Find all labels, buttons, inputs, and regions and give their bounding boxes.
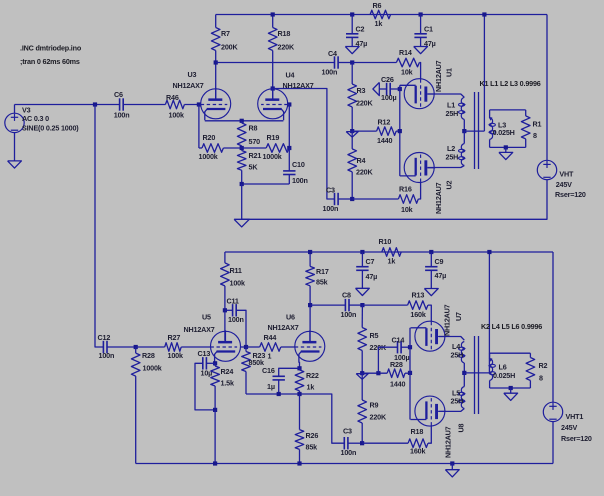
svg-text:47µ: 47µ [435,271,447,280]
svg-text:K2 L4 L5 L6 0.9996: K2 L4 L5 L6 0.9996 [481,322,542,331]
label R18 [410,427,425,456]
svg-text:C14: C14 [392,336,405,345]
svg-text:R27: R27 [168,333,181,342]
svg-text:R7: R7 [221,29,230,38]
svg-text:25H: 25H [451,351,464,360]
svg-text:C1: C1 [424,25,433,34]
svg-text:245V: 245V [561,423,577,432]
svg-text:R19: R19 [267,133,280,142]
label R13 [410,290,425,319]
svg-text:245V: 245V [556,180,572,189]
node R22 bottom [297,392,301,396]
wire C4-to-R14 [352,62,396,64]
ground (below C1) [414,47,428,54]
label C1 [424,25,436,49]
label U2 [434,180,454,214]
svg-text:R20: R20 [203,133,216,142]
wire input drop column [95,105,103,348]
svg-text:R24: R24 [221,367,234,376]
wire plate-to-C4 row [216,62,335,64]
node U6/C11/R44/R23 junction [244,345,248,349]
label R25 [142,351,162,373]
triode U6 [211,330,241,363]
label R16 [399,185,413,215]
svg-text:U7: U7 [454,312,463,321]
node U6 cathode junction [213,361,217,365]
svg-text:25H: 25H [446,153,459,162]
node U8 plate junction [308,303,312,307]
label VHT1 [561,412,592,443]
label R2 [539,361,548,383]
svg-text:AC 0.3 0: AC 0.3 0 [22,114,49,123]
svg-text:C12: C12 [98,333,111,342]
svg-text:100µ: 100µ [381,93,396,102]
svg-text:SINE(0 0.25 1000): SINE(0 0.25 1000) [22,123,79,132]
ground (secondary 1) [499,147,513,159]
resistor R23 [242,347,251,394]
svg-text:R18: R18 [411,427,424,436]
label U8 (output) [444,423,466,458]
wire top supply rail [216,14,547,16]
svg-text:R21: R21 [249,151,262,160]
transformer core 2 [475,336,479,414]
svg-text:160k: 160k [410,447,425,456]
svg-text:R6: R6 [373,1,382,10]
node R19/C10 junction [287,146,291,150]
resistor R12 [377,127,400,136]
ground (left, at C26) [373,82,379,95]
svg-text:10µ: 10µ [201,369,213,378]
label R4 [356,156,373,177]
svg-text:1µ: 1µ [267,382,275,391]
node R26 rail junction [297,461,301,465]
wire center tap to B+ [464,15,484,132]
ground (bottom rail) [445,464,459,477]
wire shared cathode column 2 [409,328,411,420]
svg-text:NH12AX7: NH12AX7 [283,81,314,90]
capacitor C26 [379,83,400,95]
wire ground return to VHT [242,180,547,220]
wire U4 plate to C3 [273,89,335,200]
node C14 drop junction [376,371,380,375]
svg-text:47µ: 47µ [424,39,436,48]
svg-text:100n: 100n [341,310,357,319]
capacitor C13 [195,357,215,410]
resistor R2 [526,353,535,388]
resistor R5 (220K) [358,305,367,373]
resistor R14 [396,58,420,79]
svg-text:R28: R28 [142,351,155,360]
triode U3 [201,88,231,121]
svg-text:100n: 100n [99,351,115,360]
svg-text:R44: R44 [264,333,277,342]
svg-text:100k: 100k [168,351,183,360]
svg-text:R10: R10 [379,237,392,246]
svg-text:U1: U1 [445,68,454,77]
label C10 [292,160,308,185]
node C12/R25 junction [134,345,138,349]
inductor L4 [439,337,465,373]
resistor R9 [358,374,367,444]
resistor R28 (1440) [387,369,410,378]
label R5 [370,331,387,352]
svg-text:200K: 200K [221,43,238,52]
label C7 [366,257,378,281]
label U4 [283,71,314,91]
label R26 [306,431,319,452]
ground (below C9) [424,289,438,296]
svg-text:U5: U5 [202,313,211,322]
svg-text:K1 L1 L2 L3 0.9996: K1 L1 L2 L3 0.9996 [480,79,541,88]
svg-text:U3: U3 [188,70,197,79]
inductor L3 [489,110,495,147]
label R3 [356,86,373,108]
node C8/R13/R5 junction [360,303,364,307]
svg-text:R4: R4 [357,156,366,165]
svg-text:NH12AU7: NH12AU7 [443,304,452,336]
node C16 bottom [277,392,281,396]
node U6 plate junction [223,308,227,312]
label C2 [356,25,368,49]
svg-text:160k: 160k [410,310,425,319]
label R17 [316,267,329,287]
capacitor C3 (lower) [344,437,362,449]
node C4/R3 junction [350,60,354,64]
transformer core 1 [475,92,479,169]
svg-text:5K: 5K [249,163,259,172]
inductor L2 [427,131,464,167]
label R7 [221,29,238,52]
comment ;tran directive [20,57,80,66]
label R24 [221,367,234,388]
resistor R10 [382,248,401,257]
svg-text:1000k: 1000k [263,152,282,161]
voltage source VHT [537,15,556,180]
svg-text:100n: 100n [341,448,357,457]
node U4 plate junction [271,86,275,90]
svg-text:1000k: 1000k [199,152,218,161]
svg-text:1440: 1440 [390,380,405,389]
svg-text:85k: 85k [306,443,318,452]
label L2 [446,144,459,162]
label R9 [370,401,387,422]
comment .INC directive [20,44,82,53]
label R1 [533,119,542,140]
label C16 [262,366,275,391]
svg-text:C7: C7 [366,257,375,266]
svg-text:1.5k: 1.5k [221,379,234,388]
svg-text:R17: R17 [316,267,329,276]
resistor R22 [295,368,304,394]
wire gnd to R28 [362,372,387,374]
svg-text:R46: R46 [166,93,179,102]
svg-text:100n: 100n [322,68,338,77]
capacitor C3 [335,193,353,205]
node C2 rail junction [350,12,354,16]
capacitor C10 [283,148,295,184]
ground (secondary 2) [504,388,518,400]
node C3/R4/R16 junction [350,197,354,201]
svg-text:C3: C3 [343,427,352,436]
node U4 grid junction [287,102,291,106]
triode U1 [400,79,435,109]
resistor R44 [246,343,295,352]
svg-text:R1: R1 [533,119,542,128]
svg-text:Rser=120: Rser=120 [555,190,586,199]
label R20 [199,133,218,161]
svg-text:C9: C9 [435,257,444,266]
svg-text:85k: 85k [316,278,328,287]
svg-text:C13: C13 [198,349,211,358]
svg-text:U6: U6 [286,313,295,322]
svg-text:570: 570 [249,137,261,146]
resistor R25 (1000k) [131,347,140,464]
label R18 [278,29,295,52]
resistor R18 [268,15,277,99]
svg-text:C16: C16 [262,366,275,375]
label R21 [249,151,262,172]
resistor R24 [211,363,220,410]
svg-text:R2: R2 [539,361,548,370]
node R21/C10 bottom [240,182,244,186]
label R23 [249,351,266,367]
svg-text:C10: C10 [292,160,305,169]
svg-text:R8: R8 [249,124,258,133]
svg-text:1k: 1k [307,383,315,392]
resistor R17 [306,252,315,341]
svg-text:1k: 1k [375,19,383,28]
svg-text:;tran 0 62ms 60ms: ;tran 0 62ms 60ms [20,57,80,66]
wire cathode net bottom row [246,394,344,443]
label K2 statement [481,322,542,331]
svg-text:U4: U4 [286,71,295,80]
svg-text:C3: C3 [326,186,335,195]
node C14/cathode junction [408,345,412,349]
wire U8 cathode drop [299,362,301,369]
voltage source VHT1 [543,252,562,464]
label L3 [493,121,515,137]
svg-text:220K: 220K [370,413,387,422]
label R11 [230,266,245,288]
resistor R6 [370,10,391,19]
resistor R18 (160k) [408,426,431,448]
svg-text:NH12AX7: NH12AX7 [184,325,215,334]
svg-text:VHT1: VHT1 [566,412,584,421]
triode U8 (output) [411,396,446,426]
node C7 rail junction [360,250,364,254]
svg-text:100n: 100n [292,176,308,185]
wire C3-to-R16 [352,198,398,200]
svg-text:100k: 100k [230,279,245,288]
capacitor C1 [414,15,426,47]
svg-text:R9: R9 [370,401,379,410]
svg-text:1: 1 [268,352,272,361]
label C9 [435,257,447,280]
node cathode/R8 junction [240,119,244,123]
wire secondary top [490,109,526,111]
capacitor C4 [335,56,353,68]
label R14 [399,48,413,77]
label L4 [451,342,464,360]
capacitor C6 [120,98,166,110]
capacitor C12 [103,341,135,353]
node U3 grid junction [197,102,201,106]
label C12 [98,333,115,360]
ground (below C2) [345,47,359,54]
ground (mid splitter) [346,132,358,138]
label C3 [323,186,339,214]
voltage source V3 [5,105,24,161]
label C11 [227,297,244,325]
node B+ rail junction [482,12,486,16]
svg-text:R5: R5 [370,331,379,340]
svg-text:R13: R13 [412,290,425,299]
svg-text:C4: C4 [328,49,337,58]
node R18 top [271,12,275,16]
resistor R3 [348,63,357,132]
capacitor C16 [273,368,300,394]
wire C12-to-R27 [136,346,165,348]
phase marker L3 [489,117,493,120]
node R3/R4/R12 junction [350,129,354,133]
wire bottom supply rail [225,251,553,253]
label U5 [184,313,215,335]
svg-text:NH12AU7: NH12AU7 [434,182,443,214]
wire C3-to-R18 [362,442,408,444]
svg-text:10k: 10k [401,205,413,214]
node R7 bottom [214,60,218,64]
label C8 [341,291,357,320]
label L5 [451,389,464,406]
svg-text:1440: 1440 [377,136,392,145]
node ground rail junction [450,461,454,465]
label R27 [168,333,183,360]
wire secondary bottom [490,146,526,148]
svg-text:.INC dmtriodep.ino: .INC dmtriodep.ino [20,44,82,53]
wire shared cathode column [399,85,401,176]
svg-text:R3: R3 [357,86,366,95]
resistor R8 [237,121,246,151]
node primary center tap 2 [462,371,466,375]
ground (below C7) [356,288,370,295]
ground (mid bottom) [356,374,368,380]
node R24/C13 bottom [213,408,217,412]
svg-text:U2: U2 [445,180,454,189]
svg-text:NH12AU7: NH12AU7 [444,426,453,458]
svg-text:C6: C6 [114,90,123,99]
svg-text:U8: U8 [457,423,466,432]
capacitor C9 [425,252,437,289]
node R17 rail junction [308,250,312,254]
svg-text:100n: 100n [114,110,130,119]
wire bottom of R21/C10 [242,183,290,185]
label C3 (lower) [341,427,357,458]
ground (below V3) [8,161,22,168]
svg-text:C8: C8 [342,291,351,300]
capacitor C14 [378,341,410,373]
svg-text:R26: R26 [306,431,319,440]
wire down to ground node [241,184,243,219]
svg-text:R14: R14 [399,48,412,57]
wire U6 grid right exit [241,346,247,348]
triode U2 [400,153,435,183]
node input junction [93,102,97,106]
resistor R11 [221,252,230,341]
svg-text:R16: R16 [399,185,412,194]
inductor L1 [427,94,464,131]
label R46 [166,93,184,120]
triode U7 [411,321,446,351]
node R5/R9 ground junction [360,371,364,375]
svg-text:8: 8 [533,131,537,140]
label C4 [322,49,338,77]
svg-text:1k: 1k [388,257,396,266]
svg-text:C26: C26 [381,75,394,84]
capacitor C11 [225,304,246,347]
resistor R16 [398,182,420,203]
svg-text:R12: R12 [378,118,391,127]
svg-text:VHT: VHT [559,169,574,178]
svg-text:0.025H: 0.025H [493,128,515,137]
label U7 [443,304,464,336]
svg-text:NH12AU7: NH12AU7 [434,60,443,92]
node secondary ground tap [504,145,508,149]
svg-text:47µ: 47µ [356,39,368,48]
svg-text:220K: 220K [356,168,373,177]
label C14 [392,336,410,363]
svg-text:8: 8 [539,374,543,383]
node primary center tap [462,129,466,133]
wire C8-to-R13 [362,304,407,306]
node R28/cathode junction [408,371,412,375]
node R12/cathode junction [398,129,402,133]
label R22 [306,371,319,392]
wire bottom rail (ground return) [136,463,553,465]
resistor R21 [237,151,246,185]
label C6 [114,90,130,120]
node U8 cathode junction [297,366,301,370]
node C26/cathode junction [398,87,402,91]
resistor R7 [211,15,220,99]
label K1 statement [480,79,541,88]
capacitor C2 [346,15,358,47]
wire U8 plate to C8 [310,304,345,306]
wire secondary bottom 2 [490,387,531,389]
node secondary ground tap 2 [509,386,513,390]
node C9 rail junction [429,250,433,254]
node R8/R21 junction [240,146,244,150]
node B+ rail junction 2 [487,250,491,254]
svg-text:R28: R28 [390,360,403,369]
svg-text:Rser=120: Rser=120 [561,434,592,443]
label C13 [198,349,213,378]
svg-text:R18: R18 [278,29,291,38]
label R44 [264,333,277,361]
svg-text:47µ: 47µ [366,272,378,281]
label R8 [249,124,261,147]
resistor R13 [408,301,432,322]
triode U8 (driver) [295,330,325,363]
svg-text:100k: 100k [169,111,184,120]
wire secondary top 2 [490,352,531,354]
svg-text:C2: C2 [356,25,365,34]
svg-text:C11: C11 [227,297,239,306]
phase marker L6 [489,358,493,361]
wire cathode row U3/U4 [205,120,284,122]
label R6 [373,1,383,28]
capacitor C8 [345,299,362,311]
resistor R20 [202,144,223,153]
